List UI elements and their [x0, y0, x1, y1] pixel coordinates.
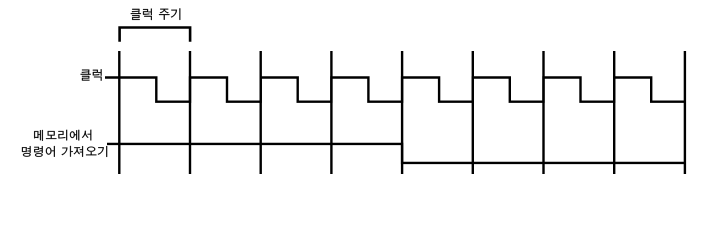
label: memory fetch line1 (메모리에서): [34, 130, 91, 141]
label: clock period title (클럭 주기): [131, 8, 181, 20]
label: clock signal (클럭): [81, 69, 102, 80]
wire: clock-edge gridline 7: [542, 51, 544, 174]
wire: clock-edge gridline 8: [613, 51, 615, 174]
signal: clock waveform: [105, 78, 685, 102]
signal: memory instruction-fetch waveform: [107, 144, 685, 163]
wire: clock-edge gridline 6: [472, 51, 474, 174]
wire: clock-edge gridline 3: [260, 51, 262, 174]
label: memory fetch line2 (명령어 가져오기): [22, 146, 107, 157]
bracket: clock period marker: [120, 28, 191, 42]
wire: clock-edge gridline 5: [401, 51, 403, 174]
wire: clock-edge gridline 2: [189, 51, 191, 174]
wire: clock-edge gridline 9: [684, 51, 686, 174]
wire: clock-edge gridline 1: [118, 51, 120, 174]
wire: clock-edge gridline 4: [330, 51, 332, 174]
